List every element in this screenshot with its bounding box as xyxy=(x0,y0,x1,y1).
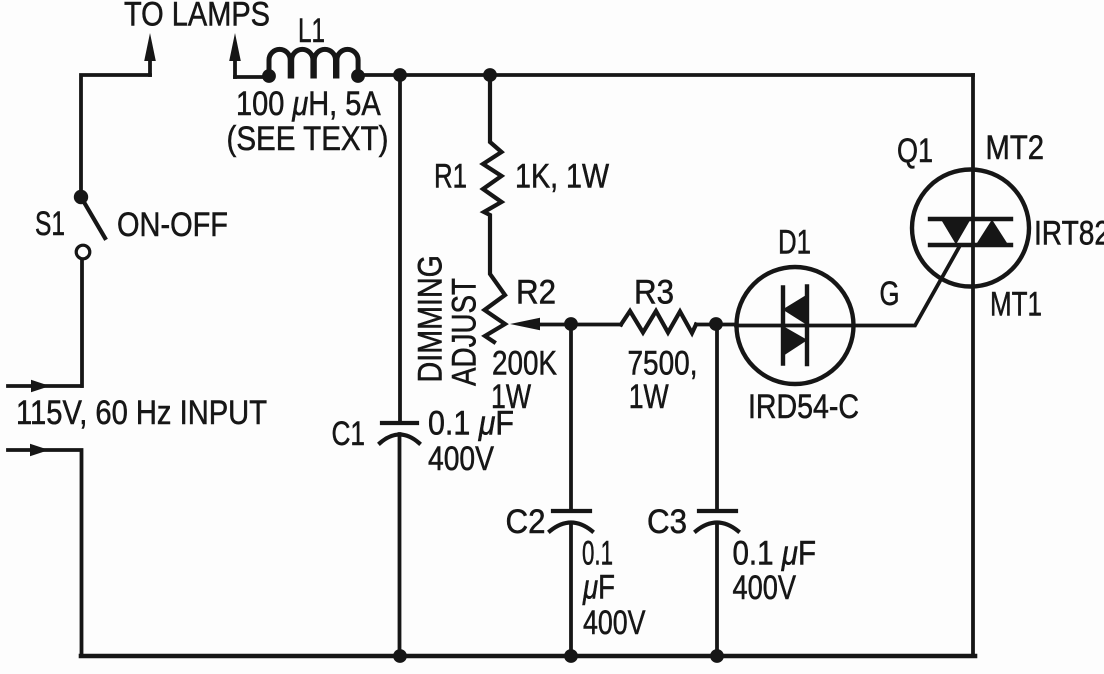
svg-text:MT2: MT2 xyxy=(986,129,1045,167)
svg-text:0.1 μF: 0.1 μF xyxy=(733,535,817,573)
svg-text:C1: C1 xyxy=(332,415,366,453)
svg-text:400V: 400V xyxy=(428,440,494,478)
svg-text:D1: D1 xyxy=(778,224,811,262)
svg-text:100 μH, 5A: 100 μH, 5A xyxy=(236,85,381,123)
svg-text:Q1: Q1 xyxy=(897,132,933,170)
svg-text:115V, 60 Hz INPUT: 115V, 60 Hz INPUT xyxy=(16,394,267,432)
svg-text:400V: 400V xyxy=(583,604,646,642)
svg-text:200K: 200K xyxy=(492,345,557,383)
svg-text:G: G xyxy=(880,275,900,313)
svg-text:R2: R2 xyxy=(516,274,556,312)
svg-text:C3: C3 xyxy=(647,503,687,541)
svg-text:TO LAMPS: TO LAMPS xyxy=(124,0,270,34)
svg-text:μF: μF xyxy=(582,569,615,607)
svg-text:(SEE TEXT): (SEE TEXT) xyxy=(227,120,389,158)
svg-text:0.1 μF: 0.1 μF xyxy=(428,405,514,443)
svg-text:R3: R3 xyxy=(634,274,674,312)
svg-text:ADJUST: ADJUST xyxy=(446,278,484,386)
svg-text:IRT82: IRT82 xyxy=(1034,215,1104,253)
svg-text:1K, 1W: 1K, 1W xyxy=(515,158,609,196)
svg-text:ON-OFF: ON-OFF xyxy=(117,206,228,244)
svg-text:0.1: 0.1 xyxy=(582,535,613,573)
svg-text:R1: R1 xyxy=(434,158,467,196)
svg-text:400V: 400V xyxy=(733,569,797,607)
svg-text:S1: S1 xyxy=(35,205,65,243)
svg-text:C2: C2 xyxy=(506,503,546,541)
svg-text:IRD54-C: IRD54-C xyxy=(748,388,859,426)
svg-text:MT1: MT1 xyxy=(990,286,1042,324)
svg-text:1W: 1W xyxy=(629,378,669,416)
svg-text:L1: L1 xyxy=(298,12,325,50)
svg-text:7500,: 7500, xyxy=(628,345,698,383)
svg-text:DIMMING: DIMMING xyxy=(412,255,450,383)
